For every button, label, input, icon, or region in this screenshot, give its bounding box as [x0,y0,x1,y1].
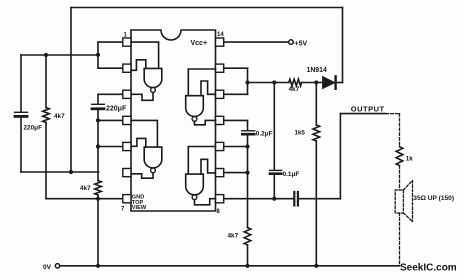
pin 2 square [123,64,131,72]
capacitor C1 220uF plates [15,111,28,113]
capacitor C3 0.2uF plates [242,130,255,132]
wire pin 14 to +5V terminal [224,41,289,43]
diode D1 1N914 triangle [323,77,335,89]
pin 13 square [216,64,224,72]
wire horizontal y=198.7 (R1 bottom to pin 7) [46,198,123,200]
node junction 0.1uF branch on y82.5 net [272,80,276,84]
wire pin 12 internal zigzag to gate U1c input [201,81,216,96]
capacitor C2 220uF top lead [97,94,99,103]
wire gate U1a output to pin 3 [131,92,153,100]
svg-text:1k5: 1k5 [295,130,306,137]
svg-text:VIEW: VIEW [132,205,147,211]
svg-text:4k7: 4k7 [289,86,300,93]
svg-text:Vcc+: Vcc+ [191,40,208,47]
svg-text:1k: 1k [406,156,413,163]
wire pin 12 external [224,93,248,95]
wire pin 13 external [224,67,248,69]
wire horizontal y=172 (C1 bottom to ground-side vertical) [21,171,99,173]
node junction pins 12/13 net [245,80,249,84]
capacitor C5 series coupling plates [293,192,295,206]
resistor R1 4k7 top lead [45,55,47,108]
pin 14 square [216,38,224,46]
node junction pin10 tap [245,144,249,148]
node junction C4 on pin8 wire [272,197,276,201]
wire horizontal net y=55 (C1/R1 top to pins 1-2) [21,54,98,56]
pin 11 square [216,116,224,124]
wire dashed output top to load branch [386,113,400,115]
svg-text:220μF: 220μF [24,125,43,132]
capacitor C3 bottom lead down through pin10/pin9 taps to R5 [247,136,249,228]
svg-text:4k7: 4k7 [54,113,65,120]
svg-text:4k7: 4k7 [80,185,91,192]
IC U1 7400 body outline [131,30,216,211]
resistor R6 1k zigzag [396,147,403,166]
wire pin 4 internal to gate U1b input [131,120,157,147]
wire pin 9 external [224,172,248,174]
svg-text:1N914: 1N914 [307,67,327,74]
svg-text:0V: 0V [43,264,52,271]
capacitor C1 220uF top lead [20,55,22,111]
node junction R5 on 0V rail [245,264,249,268]
wire pin 10 internal to gate U1d input [188,147,215,175]
svg-text:35Ω UP (150): 35Ω UP (150) [413,195,454,202]
wire right vertical from top rail to diode cathode [342,8,344,83]
nand gate U1d body [186,174,204,195]
wire left vertical from top rail [70,8,72,173]
resistor R3 4k7 zigzag [289,79,302,86]
resistor R2 4k7 zigzag [95,181,102,196]
pin 3 square [123,90,131,98]
node junction R4 on 0V rail [314,264,318,268]
node junction top-rail drop joins y172 wire [69,170,73,174]
nand gate U1a body [144,68,162,87]
resistor R5 bottom lead to 0V rail [247,245,249,266]
node junction y55 net meets pin1/2 vertical [96,53,100,57]
svg-text:0.2μF: 0.2μF [256,130,273,137]
pin 4 square [123,116,131,124]
pin 12 square [216,90,224,98]
node junction pin5 tap [96,144,100,148]
wire output top horizontal [340,113,386,115]
wire pin 5 external [98,146,123,148]
svg-text:14: 14 [217,32,224,38]
wire vertical tying pins 13 and 12 [247,68,249,94]
wire gate U1d output to pin 8 [195,199,216,205]
wire pin 10 external [224,146,248,148]
wire dashed R6 to speaker [399,166,401,190]
pin 7 square [123,195,131,203]
wire pin 1 external [98,41,123,43]
capacitor C4 0.1uF top lead from y82.5 net [273,83,275,170]
resistor R5 4k7 zigzag [244,228,251,246]
pin 1 square [123,38,131,46]
resistor R4 1k5 top lead [315,83,317,126]
wire dashed speaker to 0V rail [399,213,401,266]
svg-text:7: 7 [121,207,125,213]
speaker LS1 dashed cone [403,181,412,222]
nand gate U1c output bubble [192,117,197,122]
wire gate U1b output to pin 6 [131,173,153,178]
capacitor C2 bottom lead down through pin4/pin5 taps [97,110,99,180]
pin 8 square [216,195,224,203]
wire vertical tying pins 1 and 2 [97,42,99,68]
diode D1 cathode bar [334,76,336,88]
svg-text:0.1μF: 0.1μF [283,171,300,178]
node junction R4 tap at diode anode [314,80,318,84]
svg-text:SeekIC.com: SeekIC.com [400,263,457,274]
svg-text:220μF: 220μF [106,106,127,113]
pin 5 square [123,142,131,150]
wire pin 5 internal zigzag to gate U1b input [131,138,146,147]
wire pin 2 internal zigzag to gate U1a input [131,60,146,71]
wire pin 3 external [98,93,123,95]
wire pin 8 external to coupling capacitor [224,198,294,200]
speaker LS1 dashed frame [395,190,403,213]
capacitor C2 220uF plates [92,103,104,105]
wire C5 to output corner [299,198,341,200]
resistor R4 bottom lead to 0V rail [315,141,317,266]
pin 6 square [123,169,131,177]
wire pin 13 internal to gate U1c input [188,69,215,96]
svg-text:8: 8 [217,209,221,215]
wire top supply rail [71,7,343,9]
capacitor C4 bottom lead to pin 8 wire [273,175,275,199]
terminal +5V [289,40,294,45]
wire pin 1 internal to gate U1a input [131,42,159,68]
wire 0V ground rail [61,265,400,267]
resistor R1 4k7 zigzag [43,108,50,123]
wire dashed load branch down to R6 [399,114,401,147]
svg-text:4k7: 4k7 [228,233,239,240]
pin 10 square [216,142,224,150]
nand gate U1a output bubble [151,88,156,93]
wire gate U1c output to pin 11 [195,120,216,124]
resistor R4 1k5 zigzag [313,125,320,141]
wire diode cathode to top-rail vertical [337,82,343,84]
wire pin 11 external [224,119,248,121]
wire pin 2 external [98,67,123,69]
nand gate U1b output bubble [151,168,156,173]
nand gate U1b body [144,147,162,168]
nand gate U1c body [186,96,204,117]
svg-text:+5V: +5V [295,40,308,47]
wire pin 9 internal zigzag to gate U1d input [201,159,216,174]
resistor R1 bottom lead [45,123,47,199]
node junction R1 top on y55 net [44,53,48,57]
node junction pin9 tap [245,171,249,175]
resistor R2 bottom lead to 0V rail [97,195,99,266]
node junction R2 on 0V rail [96,264,100,268]
capacitor C1 bottom lead [20,118,22,172]
wire R3 to diode D1 [302,82,323,84]
wire pin 4 external [98,119,123,121]
wire y82.5 net to resistor R3 [248,82,289,84]
svg-text:OUTPUT: OUTPUT [351,104,385,113]
capacitor C3 0.2uF top lead [247,120,249,130]
node junction pin7/R1/R2 net [96,197,100,201]
terminal 0V [55,264,59,268]
capacitor C4 0.1uF plates [270,169,282,171]
nand gate U1d output bubble [192,195,197,200]
pin 9 square [216,169,224,177]
wire output vertical riser [339,114,341,199]
node junction pin4 tap [96,118,100,122]
